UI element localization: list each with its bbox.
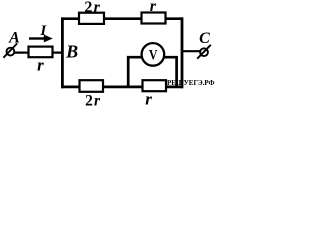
svg-text:r: r [145, 89, 152, 108]
svg-text:C: C [199, 30, 210, 47]
wire top rail B to right vertical [61, 17, 183, 20]
svg-text:2r: 2r [85, 92, 101, 109]
resistor R2 box (2r, top branch) [79, 13, 104, 24]
wire right vertical to C [181, 17, 184, 88]
svg-text:r: r [150, 0, 157, 15]
wire right vertical to terminal C [181, 50, 201, 52]
resistor R3 box (r, top branch) [142, 13, 166, 24]
terminal A [3, 43, 17, 57]
wire voltmeter right lead [163, 57, 177, 87]
svg-text:2r: 2r [84, 0, 101, 16]
wire bottom rail [61, 86, 183, 89]
resistor R1 box (r, between A and B) [29, 47, 53, 58]
wire A to B middle [14, 51, 64, 53]
svg-text:A: A [8, 30, 20, 47]
resistor R5 box (r, bottom branch) [143, 80, 167, 91]
wire vertical at node B [61, 17, 64, 88]
svg-text:I: I [39, 23, 47, 39]
svg-text:V: V [149, 47, 158, 63]
svg-text:r: r [37, 56, 44, 75]
resistor R4 box (2r, bottom branch) [80, 80, 104, 92]
voltmeter U1 [142, 43, 165, 66]
current arrow I [29, 35, 53, 43]
svg-text:B: B [65, 41, 78, 61]
terminal C [197, 45, 211, 59]
wire voltmeter left lead [128, 57, 143, 87]
